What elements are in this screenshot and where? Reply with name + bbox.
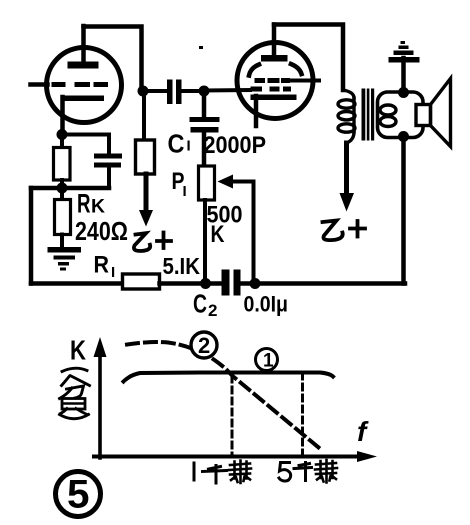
wire cathode to bypass cap top (62, 135, 109, 154)
resistor cathode (upper) (54, 135, 71, 189)
svg-text:2000P: 2000P (204, 132, 267, 159)
svg-text:240Ω: 240Ω (75, 216, 128, 246)
V2 cathode (251, 95, 297, 127)
resistor R1 (123, 274, 160, 289)
curve 2 dashed (127, 342, 321, 449)
node E (200, 278, 211, 289)
arrow supply B+ left (139, 174, 153, 227)
wire speaker bottom lead (401, 137, 406, 284)
potentiometer P1 (199, 166, 254, 284)
curve 1 solid (124, 373, 334, 382)
svg-text:C: C (193, 289, 207, 319)
capacitor C2 (222, 270, 241, 296)
svg-text:0.0Iμ: 0.0Iμ (244, 292, 289, 317)
V2 beam electrodes (249, 64, 302, 76)
V2 control grid dashes (251, 87, 292, 92)
arrow supply B+ right (340, 143, 355, 212)
svg-text:I: I (183, 183, 187, 200)
wire speaker top lead (401, 58, 406, 92)
ground (48, 247, 82, 271)
svg-text:K: K (91, 197, 105, 218)
wire left feedback branch (29, 188, 34, 284)
bottom rail mid (160, 281, 222, 286)
bottom rail right (241, 281, 405, 286)
graph y-axis (94, 337, 107, 458)
dashed vertical 5kHz (301, 373, 304, 455)
svg-text:1: 1 (263, 351, 274, 372)
svg-text:2: 2 (208, 301, 217, 320)
capacitor bypass CK (94, 154, 122, 189)
tube V1 envelope (47, 48, 122, 123)
label 1 kHz (194, 461, 251, 484)
svg-text:I: I (111, 264, 115, 281)
V1 grid (31, 82, 109, 87)
transformer primary (338, 90, 355, 143)
chassis symbol (389, 41, 420, 63)
speaker horn (431, 79, 451, 147)
node cathode junction B (57, 183, 68, 194)
speck (199, 46, 203, 49)
svg-text:5: 5 (67, 473, 90, 517)
capacitor C1 (190, 91, 220, 166)
label B+ left (yi+) (134, 233, 171, 252)
tube V2 envelope (237, 43, 313, 119)
resistor load (plate) (136, 91, 155, 174)
node plate junction (138, 86, 149, 97)
wire junction to coupling cap (143, 89, 167, 93)
V1 cathode (61, 96, 104, 135)
wire coupling cap to node D (182, 89, 205, 93)
wire P1 bottom (203, 200, 207, 284)
node cathode junction A (57, 129, 68, 140)
figure number 5 (56, 472, 101, 517)
node F (250, 278, 261, 289)
wire node D to V2 grid (204, 88, 250, 93)
bottom rail left (31, 281, 124, 286)
svg-text:K: K (211, 221, 226, 248)
svg-text:R: R (94, 252, 110, 279)
speaker throat (416, 105, 431, 126)
svg-text:R: R (77, 189, 91, 219)
node speaker top (398, 87, 409, 98)
wire V1 plate to top rail (84, 27, 143, 92)
wire junction B horizontal (31, 186, 109, 191)
graph x-axis (94, 451, 377, 462)
svg-text:I: I (187, 138, 191, 155)
label 5 kHz (279, 460, 337, 483)
node D (199, 86, 210, 97)
capacitor coupling (167, 80, 182, 105)
circled 2 (191, 332, 217, 358)
transformer secondary (380, 105, 396, 127)
node speaker bottom (398, 131, 409, 142)
svg-text:2: 2 (198, 333, 210, 358)
V2 plate (261, 25, 288, 62)
label fenbei vertical (60, 368, 90, 419)
circled 1 (256, 349, 278, 372)
transformer core (362, 89, 375, 141)
dashed vertical 1kHz (231, 376, 234, 455)
svg-text:C: C (168, 129, 185, 159)
label B+ right (yi+) (323, 221, 366, 241)
svg-text:K: K (70, 335, 86, 366)
speaker body (378, 92, 424, 138)
V1 plate (68, 26, 99, 69)
wire V2 plate to transformer (274, 25, 343, 91)
svg-text:5.IK: 5.IK (163, 253, 201, 279)
resistor RK (55, 188, 71, 248)
V2 screen grid (255, 78, 320, 83)
